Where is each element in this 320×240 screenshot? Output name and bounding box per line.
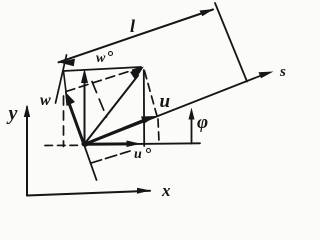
svg-text:φ: φ	[197, 112, 208, 133]
svg-text:l: l	[130, 16, 135, 36]
svg-text:u: u	[160, 91, 171, 112]
svg-text:w: w	[96, 51, 106, 66]
svg-text:s: s	[279, 64, 286, 80]
svg-text:y: y	[7, 103, 18, 125]
svg-text:x: x	[161, 181, 171, 200]
svg-text:u: u	[134, 147, 142, 162]
svg-text:w: w	[40, 92, 51, 109]
